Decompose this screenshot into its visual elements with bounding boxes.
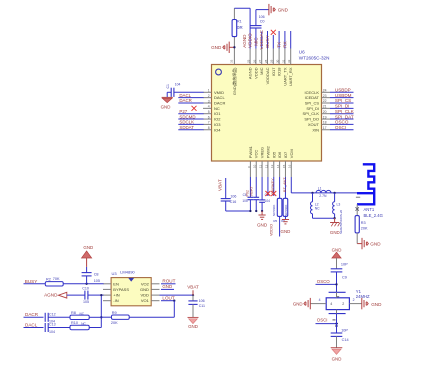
svg-text:5: 5 — [208, 110, 210, 114]
svg-text:GND: GND — [371, 302, 382, 307]
svg-text:SDDAT: SDDAT — [179, 125, 194, 130]
node OSCO label — [317, 279, 331, 284]
svg-text:R10: R10 — [71, 321, 78, 325]
wire top stub pin 31 — [278, 31, 280, 49]
svg-text:GND: GND — [332, 357, 342, 362]
svg-text:18: 18 — [323, 121, 327, 125]
wire net SPI_DI — [330, 107, 354, 109]
svg-text:31: 31 — [281, 59, 285, 63]
svg-text:2: 2 — [353, 298, 355, 302]
svg-text:2.7N: 2.7N — [319, 194, 327, 198]
svg-text:NC560K: NC560K — [284, 205, 288, 216]
capacitor C1 — [166, 82, 204, 97]
wire net OSCO — [330, 123, 354, 125]
wire net OSCO — [316, 283, 338, 285]
wire net P27 — [178, 113, 203, 115]
svg-text:20K: 20K — [111, 321, 118, 325]
node DACR label at amp — [24, 312, 44, 317]
wire net ROUT — [161, 283, 176, 285]
svg-text:OSCO: OSCO — [317, 279, 331, 284]
wire -IN feedback vertical — [100, 294, 102, 328]
svg-text:GND: GND — [162, 284, 172, 289]
ground GND left of crystal — [293, 298, 310, 309]
svg-text:GND: GND — [211, 45, 222, 50]
svg-text:RX: RX — [282, 41, 287, 47]
svg-text:GND: GND — [140, 287, 149, 292]
resistor R6 — [281, 177, 288, 223]
svg-text:GND: GND — [281, 229, 291, 234]
node SPI_DAT label — [335, 114, 354, 119]
svg-text:BUSY: BUSY — [265, 35, 270, 48]
wire top stub pin 33 — [290, 31, 292, 49]
wire top stub pin 30 — [272, 35, 274, 49]
svg-text:17: 17 — [323, 126, 327, 130]
svg-text:0R: 0R — [237, 25, 243, 30]
svg-text:WT2605C-32N: WT2605C-32N — [299, 55, 330, 60]
svg-text:BYPASS: BYPASS — [113, 287, 129, 292]
svg-text:23: 23 — [323, 94, 327, 98]
svg-text:R1: R1 — [237, 19, 242, 23]
wire VBAT branch with node VBAT label — [218, 178, 251, 211]
svg-text:VO2: VO2 — [141, 281, 150, 286]
svg-text:USBDM: USBDM — [335, 93, 352, 98]
node PAIRKEY label — [271, 178, 275, 195]
svg-text:VO1: VO1 — [141, 298, 150, 303]
svg-text:XOUT: XOUT — [308, 122, 320, 127]
svg-text:12: 12 — [264, 164, 268, 168]
node junction L3 top — [333, 192, 335, 194]
node OSCI label — [335, 125, 346, 130]
svg-text:ICEDAT: ICEDAT — [305, 95, 320, 100]
svg-text:GND: GND — [161, 105, 171, 110]
svg-text:-IN: -IN — [113, 298, 118, 303]
svg-text:VMID: VMID — [214, 90, 224, 95]
svg-text:VBAT: VBAT — [218, 179, 223, 191]
svg-text:104: 104 — [175, 82, 181, 86]
svg-text:C0: C0 — [260, 20, 265, 24]
U6 left pins 1-8 (VMID DACL DACR NC IO1 IO2 IO3 IO4) — [203, 89, 225, 133]
node ROUT label — [162, 279, 175, 284]
svg-text:106: 106 — [259, 15, 265, 19]
node RX label — [282, 41, 287, 47]
svg-text:R9: R9 — [112, 311, 117, 315]
svg-text:TX: TX — [277, 42, 282, 48]
svg-text:GND: GND — [278, 8, 289, 13]
node SDCLK label — [179, 120, 194, 125]
node junction L2 top — [311, 192, 313, 194]
svg-text:NC560K: NC560K — [272, 205, 276, 216]
svg-text:29: 29 — [270, 59, 274, 63]
wire PWM2 stub — [267, 177, 269, 196]
svg-text:DACL: DACL — [25, 322, 38, 327]
node DACR label — [179, 98, 191, 103]
svg-text:GND(散热焊盘): GND(散热焊盘) — [231, 67, 237, 95]
node DACL label — [179, 93, 191, 98]
wire VDD to VBAT — [160, 290, 195, 296]
svg-text:VDDDAC: VDDDAC — [265, 67, 270, 84]
svg-text:VDDIO: VDDIO — [270, 224, 274, 236]
node DACL label at amp — [24, 322, 44, 327]
capacitor C13 — [45, 323, 70, 334]
svg-text:C10: C10 — [82, 287, 89, 291]
svg-text:BLE_2.4G: BLE_2.4G — [364, 213, 383, 218]
svg-text:U3: U3 — [112, 271, 118, 276]
svg-text:11: 11 — [258, 165, 262, 168]
wire L2 L3 bottoms — [313, 217, 336, 219]
svg-text:NC: NC — [315, 207, 320, 211]
svg-text:15: 15 — [282, 164, 286, 168]
svg-text:R3: R3 — [361, 221, 366, 225]
no-connect X on BUSY — [271, 30, 276, 35]
wire IO5 stub — [273, 177, 275, 196]
resistor R1 — [232, 8, 243, 47]
ground GND at C1 — [161, 92, 173, 109]
capacitor C9 — [331, 262, 348, 292]
svg-text:GND: GND — [188, 324, 198, 329]
wire net SDCLK — [178, 123, 203, 125]
svg-text:EN: EN — [113, 281, 119, 286]
svg-text:13: 13 — [270, 164, 274, 168]
svg-text:24: 24 — [323, 89, 327, 93]
wire BT_ANT to antenna — [291, 177, 357, 193]
svg-text:104: 104 — [265, 199, 271, 203]
svg-text:C14: C14 — [342, 338, 349, 342]
capacitor C8 — [82, 267, 100, 284]
svg-text:4: 4 — [319, 298, 321, 302]
svg-text:VDDDAC: VDDDAC — [259, 29, 264, 49]
node VDDIO label below R5 — [270, 224, 274, 236]
svg-text:106: 106 — [230, 194, 236, 198]
svg-text:AGND: AGND — [242, 34, 247, 48]
svg-text:SPI_CLK: SPI_CLK — [303, 111, 320, 116]
svg-text:104: 104 — [49, 330, 55, 334]
svg-text:C8: C8 — [94, 273, 99, 277]
svg-text:VCC: VCC — [254, 150, 259, 159]
svg-text:105: 105 — [83, 300, 89, 304]
svg-text:VBAT: VBAT — [249, 186, 254, 197]
svg-text:+IN: +IN — [113, 293, 119, 298]
node VDDIO label — [248, 33, 253, 48]
svg-text:24MHZ: 24MHZ — [356, 294, 370, 299]
svg-text:21: 21 — [323, 105, 327, 109]
svg-text:25: 25 — [247, 59, 251, 63]
node BUSY label at amp — [24, 279, 46, 284]
svg-text:R8: R8 — [71, 311, 76, 315]
resistor R3 — [355, 216, 368, 233]
svg-text:PWM1: PWM1 — [248, 145, 253, 158]
svg-text:IO1: IO1 — [214, 111, 221, 116]
wire net SPI_CS — [330, 102, 354, 104]
svg-text:VREG: VREG — [260, 147, 265, 158]
node MIC label — [253, 37, 258, 46]
wire top stub pin 29 — [267, 31, 269, 49]
svg-text:LOUT: LOUT — [162, 296, 174, 301]
amplifier U3 LM4890 body — [111, 278, 151, 306]
node SDDAT label — [179, 125, 194, 130]
svg-text:IO5: IO5 — [271, 151, 276, 158]
svg-text:14: 14 — [276, 164, 280, 168]
svg-text:4: 4 — [208, 105, 210, 109]
svg-text:NC: NC — [214, 106, 220, 111]
ground GND below R3 — [357, 233, 381, 249]
svg-text:C16: C16 — [230, 200, 237, 204]
svg-text:DACR: DACR — [25, 312, 39, 317]
svg-text:106: 106 — [199, 299, 205, 303]
svg-text:ANT1: ANT1 — [364, 207, 375, 212]
ground GND at C0 top — [256, 4, 289, 15]
svg-text:22: 22 — [323, 99, 327, 103]
svg-text:OSCI: OSCI — [335, 125, 346, 130]
capacitor C16 — [221, 194, 237, 204]
svg-text:C11: C11 — [199, 304, 205, 308]
capacitor C0 — [250, 10, 264, 49]
node LOUT label — [162, 296, 174, 301]
ground GND at R1 bottom — [211, 42, 235, 53]
svg-text:27: 27 — [258, 59, 262, 63]
resistor R2 — [45, 277, 103, 286]
svg-text:MIC: MIC — [253, 37, 258, 46]
U6 bottom pins 9-16 (PWM1 VCC VREG PWM2 IO5 IO6 IO7 VCM) — [247, 145, 294, 177]
svg-text:105: 105 — [242, 199, 248, 203]
svg-text:26: 26 — [252, 59, 256, 63]
node OSCI label — [317, 318, 328, 323]
svg-text:AGND: AGND — [248, 67, 253, 79]
node GND label at amp — [162, 284, 172, 289]
svg-text:IO2: IO2 — [214, 117, 221, 122]
svg-text:7: 7 — [208, 121, 210, 125]
wire VO1 feedback — [129, 301, 174, 318]
ground GND below C14 — [331, 348, 343, 362]
svg-text:OSCO: OSCO — [335, 120, 349, 125]
svg-text:L3: L3 — [337, 202, 341, 206]
inductor L1 — [316, 187, 331, 198]
node P27 label — [179, 109, 187, 114]
svg-text:SPI_DI: SPI_DI — [335, 104, 350, 109]
svg-text:GND: GND — [83, 245, 93, 250]
wire net DACR — [178, 102, 203, 104]
svg-text:19: 19 — [323, 115, 327, 119]
svg-text:USBDP: USBDP — [335, 88, 351, 93]
ground GND right of crystal — [362, 298, 382, 309]
node VBAT label at VCC pin — [249, 186, 254, 197]
svg-text:SDCMD: SDCMD — [179, 114, 195, 119]
svg-text:VDDIO: VDDIO — [248, 33, 253, 48]
ground GND above C8 — [82, 245, 94, 267]
wire net DACL — [178, 97, 203, 99]
svg-text:SPI_DO: SPI_DO — [304, 117, 319, 122]
capacitor C10 — [82, 287, 103, 305]
wire net USBDP — [330, 91, 354, 93]
ground GND below C11 — [188, 317, 199, 329]
svg-text:IO18: IO18 — [277, 67, 282, 76]
wire net SPI_CLK — [330, 113, 354, 115]
svg-text:2: 2 — [208, 94, 210, 98]
resistor R9 — [101, 311, 129, 325]
svg-text:P27: P27 — [179, 109, 187, 114]
svg-text:BUSY: BUSY — [25, 279, 38, 284]
svg-text:BT_ANT: BT_ANT — [283, 177, 287, 192]
svg-text:10P: 10P — [341, 262, 348, 266]
svg-text:NC: NC — [80, 312, 85, 316]
svg-text:GND: GND — [370, 241, 381, 246]
svg-text:33: 33 — [229, 59, 233, 63]
svg-text:105: 105 — [94, 279, 100, 283]
svg-text:SDCLK: SDCLK — [179, 120, 194, 125]
svg-text:LM4890: LM4890 — [120, 269, 135, 274]
inductor L3 — [333, 193, 341, 218]
no-connect X on pin 4 — [192, 106, 197, 111]
ground GND above C9 — [332, 248, 342, 269]
svg-text:VCM: VCM — [289, 149, 294, 158]
node AGND label — [242, 34, 247, 48]
power port AGND — [44, 292, 85, 298]
wire net SPI_DAT — [330, 118, 354, 120]
svg-text:70K: 70K — [53, 277, 60, 281]
svg-text:C1: C1 — [166, 84, 170, 88]
U6 right pins 24-17 (ICECLK ICEDAT SPI_CS SPI_DI SPI_CLK SPI_DO XOUT XIN) — [303, 89, 330, 133]
svg-text:OSCI: OSCI — [317, 318, 328, 323]
svg-text:NC: NC — [81, 322, 86, 326]
svg-text:VDD: VDD — [140, 293, 149, 298]
svg-text:1: 1 — [208, 89, 210, 93]
U6 thermal pad pin 33 GND — [229, 47, 237, 95]
svg-text:SPI_CS: SPI_CS — [305, 101, 320, 106]
svg-text:VDDD: VDDD — [253, 67, 258, 78]
capacitor C5 on VCC wire — [253, 177, 259, 211]
ground GND below IC rail — [257, 211, 268, 228]
crystal Y1 label — [356, 289, 370, 299]
no-connect X on PWM2 — [265, 191, 270, 196]
svg-text:GND: GND — [257, 223, 268, 228]
svg-text:C13: C13 — [49, 323, 56, 327]
node SPI_DI label — [335, 104, 350, 109]
wire net USBDM — [330, 97, 354, 99]
svg-text:28: 28 — [264, 59, 268, 63]
wire net OSCI — [330, 129, 354, 131]
svg-text:R5: R5 — [273, 219, 277, 223]
svg-text:ROUT: ROUT — [162, 279, 175, 284]
wire net SDCMD — [178, 118, 203, 120]
node SDCMD label — [179, 114, 195, 119]
wire top stub pin 32 — [284, 31, 286, 49]
svg-text:UART_TX: UART_TX — [282, 67, 287, 85]
svg-text:IO4: IO4 — [214, 127, 221, 132]
wire net LOUT — [161, 300, 175, 302]
antenna pin tick — [356, 196, 360, 198]
ground earth GND of antenna network — [330, 218, 340, 235]
node P02 label — [245, 190, 249, 196]
node USBDM label — [335, 93, 352, 98]
svg-text:30: 30 — [276, 59, 280, 63]
svg-text:4: 4 — [330, 302, 332, 306]
svg-text:16: 16 — [288, 164, 292, 168]
svg-text:L1: L1 — [318, 187, 322, 191]
svg-text:DACR: DACR — [214, 101, 225, 106]
wire net OSCI — [316, 314, 339, 333]
capacitor C11 — [188, 295, 205, 317]
svg-text:AGND: AGND — [44, 293, 58, 298]
antenna feed pin wire — [356, 204, 359, 215]
node VBAT label at amp — [187, 285, 199, 290]
crystal Y1 — [326, 292, 349, 313]
inductor L2 — [311, 193, 321, 218]
U3 pins (EN BYPASS +IN -IN / VO2 GND VDD VO1) — [103, 281, 160, 303]
svg-text:VBAT: VBAT — [187, 285, 199, 290]
svg-text:10P: 10P — [341, 328, 348, 332]
node TX label — [277, 42, 282, 48]
node SPI_CS label — [335, 98, 351, 103]
svg-text:GND: GND — [293, 301, 303, 306]
svg-text:20K: 20K — [361, 227, 368, 231]
node USBDP label — [335, 88, 351, 93]
svg-text:GND: GND — [330, 230, 340, 235]
wire net GND at amp — [161, 288, 174, 290]
node SPI_CLK label — [335, 109, 355, 114]
svg-text:C9: C9 — [342, 276, 347, 280]
capacitor C4 on VREG wire — [259, 177, 270, 211]
no-connect X on IO5 — [271, 191, 276, 196]
U6 top pins 25-32 (AGND VDDD MIC VDDDAC IO17 IO18 UART_TX UART_RX) — [247, 49, 294, 87]
wire top stub pin 28 — [261, 32, 263, 49]
svg-text:MIC: MIC — [259, 67, 264, 74]
node BT_ANT label — [283, 177, 287, 192]
svg-text:6: 6 — [208, 115, 210, 119]
capacitor C12 — [45, 312, 70, 323]
svg-text:SPI_DI: SPI_DI — [306, 106, 319, 111]
svg-text:R2: R2 — [46, 277, 51, 281]
wire R1 top to AGND pin — [234, 8, 250, 48]
svg-text:ICECLK: ICECLK — [305, 90, 320, 95]
ground rail junctions below IC — [249, 210, 263, 212]
svg-text:DACR: DACR — [179, 98, 191, 103]
antenna ANT1 label — [364, 207, 383, 218]
svg-text:IO3: IO3 — [214, 122, 221, 127]
ground GND below R6 — [281, 220, 291, 234]
node BUSY label — [265, 35, 270, 48]
svg-text:IO6: IO6 — [277, 151, 282, 158]
svg-text:C12: C12 — [49, 312, 56, 316]
svg-text:IO17: IO17 — [271, 67, 276, 76]
svg-text:U6: U6 — [299, 50, 305, 55]
IC U6 WT2605C-32N body — [212, 65, 322, 162]
svg-text:3: 3 — [208, 99, 210, 103]
svg-text:DACL: DACL — [214, 95, 225, 100]
svg-text:SPI_CS: SPI_CS — [335, 98, 351, 103]
svg-text:SPI_CLK: SPI_CLK — [335, 109, 355, 114]
resistor R10 — [70, 321, 101, 329]
wire net SDDAT — [178, 129, 203, 131]
resistor R8 — [70, 311, 101, 320]
svg-text:PWM2: PWM2 — [265, 145, 270, 158]
crystal pin 4 wire — [311, 298, 327, 303]
resistor R5 — [272, 177, 282, 237]
svg-text:10: 10 — [253, 164, 257, 168]
svg-text:DACL: DACL — [179, 93, 191, 98]
svg-text:20: 20 — [323, 110, 327, 114]
svg-text:SPI_DAT: SPI_DAT — [335, 114, 354, 119]
svg-text:PAIRKEY: PAIRKEY — [271, 178, 275, 195]
inductor L3 part number label — [339, 209, 343, 234]
node OSCO label — [335, 120, 349, 125]
capacitor C14 — [331, 328, 349, 347]
svg-text:UART_RX: UART_RX — [288, 67, 293, 86]
U3 designator label — [112, 269, 136, 275]
svg-text:IO7: IO7 — [283, 151, 288, 158]
svg-text:8: 8 — [208, 126, 210, 130]
svg-text:2: 2 — [342, 302, 344, 306]
U6 designator label — [299, 50, 330, 61]
svg-text:XIN: XIN — [312, 127, 319, 132]
